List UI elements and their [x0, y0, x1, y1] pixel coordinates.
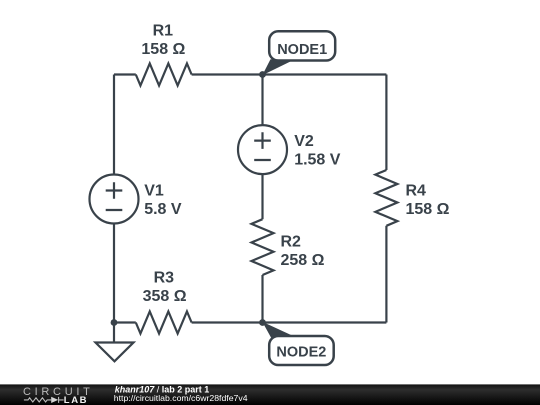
- footer logo resistor-diode symbol: [24, 397, 64, 403]
- svg-text:NODE2: NODE2: [276, 345, 326, 361]
- wire middle vertical below R2: [261, 275, 263, 323]
- svg-text:258 Ω: 258 Ω: [281, 252, 325, 269]
- svg-text:R2: R2: [281, 234, 302, 251]
- svg-text:5.8 V: 5.8 V: [144, 201, 182, 218]
- svg-text:http://circuitlab.com/c6wr28fd: http://circuitlab.com/c6wr28fdfe7v4: [114, 393, 248, 403]
- svg-text:R1: R1: [153, 23, 174, 40]
- NODE1 flag tail: [262, 59, 294, 75]
- resistor R2: [252, 219, 274, 275]
- ground: [96, 343, 134, 362]
- V2 plus sign: [254, 132, 271, 149]
- wire left vertical bottom segment: [113, 224, 115, 323]
- wire left vertical top segment: [113, 75, 115, 175]
- svg-text:158 Ω: 158 Ω: [141, 41, 185, 58]
- footer bar: [0, 384, 540, 405]
- wire bottom right: [192, 321, 387, 323]
- wire top left: [114, 73, 136, 75]
- NODE2 flag tail: [262, 322, 297, 338]
- svg-text:LAB: LAB: [64, 395, 88, 405]
- node junction dot ground: [111, 319, 118, 326]
- footer logo diode arrow: [51, 397, 58, 403]
- wire ground stub: [113, 323, 115, 343]
- svg-text:358 Ω: 358 Ω: [143, 288, 187, 305]
- wire right vertical bottom: [385, 226, 387, 323]
- svg-text:R3: R3: [154, 270, 175, 287]
- svg-text:1.58 V: 1.58 V: [294, 152, 341, 169]
- V1 plus sign: [106, 182, 123, 199]
- wire middle vertical V2 to R2: [261, 174, 263, 219]
- wire right vertical top: [385, 75, 387, 171]
- wire middle vertical above V2: [261, 75, 263, 126]
- svg-text:R4: R4: [406, 183, 427, 200]
- voltage source V2 body: [238, 125, 287, 174]
- svg-text:158 Ω: 158 Ω: [406, 201, 450, 218]
- V2 minus sign: [254, 159, 271, 161]
- node junction dot NODE1: [259, 71, 266, 78]
- NODE1 flag box: [269, 31, 335, 60]
- svg-text:NODE1: NODE1: [277, 42, 327, 58]
- resistor R1: [136, 64, 192, 86]
- V1 minus sign: [106, 209, 123, 211]
- svg-text:V1: V1: [144, 183, 164, 200]
- resistor R3: [136, 312, 192, 334]
- NODE2 flag box: [269, 336, 334, 365]
- wire bottom left: [114, 321, 136, 323]
- svg-text:V2: V2: [294, 133, 314, 150]
- voltage source V1 body: [90, 175, 139, 224]
- resistor R4: [375, 170, 397, 226]
- node junction dot NODE2: [259, 319, 266, 326]
- wire top middle: [192, 73, 387, 75]
